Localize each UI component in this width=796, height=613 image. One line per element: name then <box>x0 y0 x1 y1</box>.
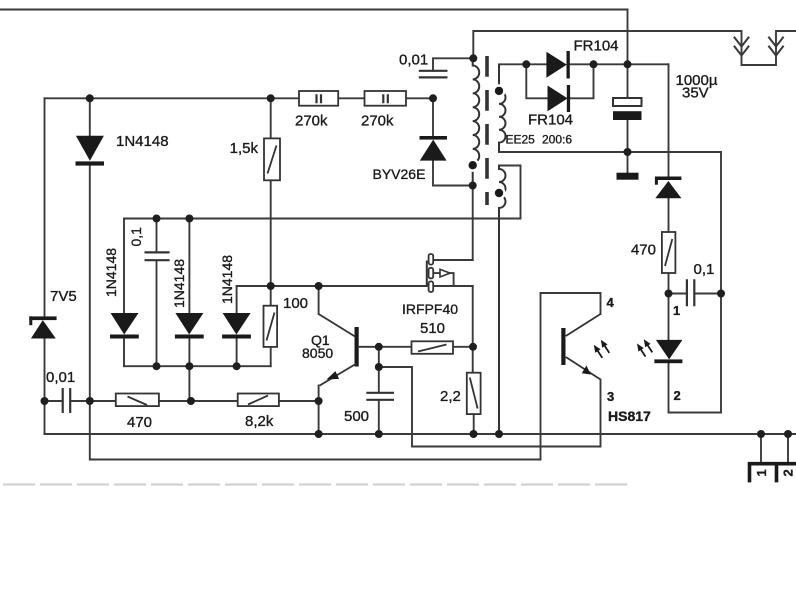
svg-text:1N4148: 1N4148 <box>103 248 119 297</box>
junction dots row y=401 <box>41 397 49 405</box>
wire: rail x=89.8 from row y=401 down to y=459.5 and across to opto rail <box>90 401 541 460</box>
wire: LED node to LED anode <box>668 294 670 340</box>
wire: Q1 emitter column to bottom row <box>318 386 320 435</box>
wire: top horizontal rail <box>0 9 628 11</box>
diode 1N4148 cluster C <box>222 313 251 339</box>
wire: 1000u cap bottom lead to return line <box>627 120 629 152</box>
junction dots cluster bottom bus y=366 <box>153 362 161 370</box>
MOSFET IRFPF40 source segment <box>429 281 434 292</box>
svg-text:0,01: 0,01 <box>46 369 75 386</box>
transistor Q1 base lead <box>359 346 379 348</box>
junction dot primary top <box>469 54 477 62</box>
MOSFET IRFPF40 gate bar <box>426 261 428 287</box>
svg-text:0,1: 0,1 <box>128 227 144 247</box>
capacitor 1000u 35V electrolytic bottom plate <box>613 111 642 120</box>
wire: BYV26E top lead <box>432 98 434 136</box>
wire: MOSFET drain lead <box>433 259 473 261</box>
wire: right column zener top lead <box>668 64 670 176</box>
svg-text:270k: 270k <box>361 113 394 130</box>
wire: MOSFET drain column to primary bottom <box>472 186 474 261</box>
resistor 1,5k body <box>264 138 280 180</box>
wire: aux winding2 bottom lead down to bottom row <box>498 208 500 434</box>
wire: connector pin1 stub <box>760 434 762 462</box>
junction dots row y=98 <box>86 94 94 102</box>
wire: secondary1 bottom lead and return line y=152 <box>499 143 721 152</box>
wire: 510 left lead <box>379 346 412 348</box>
connector arrow left (double chevron) <box>735 38 749 56</box>
transistor Q1 8050 base bar <box>355 327 359 367</box>
wire: cluster column B through bottom bus down to row y=401 <box>188 338 190 401</box>
svg-text:8050: 8050 <box>302 345 333 361</box>
wire: 0,1 cap column top lead <box>156 219 158 252</box>
wire: cluster column C bottom lead <box>236 338 238 366</box>
svg-text:470: 470 <box>631 242 656 259</box>
transistor Q1 collector lead <box>319 314 355 337</box>
capacitor 0,01 (snubber, top) plates <box>419 71 448 78</box>
wire: diode cluster bottom bus y=366 <box>124 365 271 367</box>
MOSFET IRFPF40 body segment <box>429 268 434 279</box>
svg-text:8,2k: 8,2k <box>245 413 274 430</box>
wire: BYV26E bottom lead to primary/drain node <box>433 161 473 186</box>
resistor 100 body <box>264 306 278 347</box>
transformer polarity dot auxiliary <box>492 186 505 199</box>
junction dots base row y=347 <box>375 343 383 351</box>
wire: 0,1 cap left lead <box>669 293 686 295</box>
svg-text:7V5: 7V5 <box>50 288 77 305</box>
transformer polarity dot secondary <box>492 84 505 97</box>
junction dot primary bottom / drain <box>469 182 477 190</box>
capacitor 0,1 (cluster) plates <box>145 252 170 260</box>
wire: 500 cap bottom lead <box>378 400 380 434</box>
diode BYV26E <box>420 136 448 161</box>
wire: auxiliary winding top feed line y=218.5 <box>124 166 521 219</box>
svg-text:1N4148: 1N4148 <box>116 133 169 150</box>
LED light arrow pair <box>640 344 653 357</box>
wire: gate row y=286 from diode3 to MOSFET gate <box>237 285 427 287</box>
wire: left rail x=44.5 from 7V5 down to bottom row <box>44 339 46 435</box>
optocoupler HS817 phototransistor base bar <box>561 328 565 365</box>
wire: MOSFET body tie <box>433 273 453 286</box>
wire: 470 to LED node <box>668 273 670 294</box>
wire: LED cathode down to loop bottom <box>668 363 670 412</box>
wire: 100 resistor bottom lead <box>270 347 272 366</box>
svg-text:2: 2 <box>674 388 681 403</box>
svg-text:1N4148: 1N4148 <box>219 255 235 304</box>
diode FR104 (upper) <box>546 51 569 79</box>
resistor 2,2 body <box>467 373 481 414</box>
svg-text:100: 100 <box>283 295 308 312</box>
svg-text:500: 500 <box>344 408 369 425</box>
MOSFET IRFPF40 body arrow <box>440 269 450 277</box>
svg-text:270k: 270k <box>295 113 328 130</box>
wire: 2,2 bottom lead <box>473 414 475 434</box>
transformer polarity dot primary <box>466 159 479 172</box>
wire: cluster column A bottom lead <box>123 338 125 366</box>
wire: rail x=89.8 row to top 1N4148 <box>89 98 91 136</box>
wire: 510 right lead <box>453 346 473 348</box>
wire: rail x=89.8 from top 1N4148 down to 0,01/470 row <box>89 166 91 401</box>
svg-text:HS817: HS817 <box>608 408 651 424</box>
filter stub plate (black bar) <box>617 173 639 180</box>
diode 1N4148 (top left) <box>76 136 105 166</box>
svg-text:1: 1 <box>754 469 769 476</box>
capacitor 500 plates <box>366 393 394 400</box>
connector arrow right (double chevron) <box>769 38 783 56</box>
wire: 0,1 cap column bottom lead <box>156 261 158 367</box>
capacitor 1000u 35V electrolytic top plate <box>613 98 642 106</box>
wire: opto emitter column pin3 <box>600 380 602 447</box>
transformer T1 core (dashed) <box>485 56 489 205</box>
junction dots gate row y=286 <box>267 282 275 290</box>
junction dots bottom row y=434 <box>315 430 323 438</box>
zener 7V5 <box>29 316 56 338</box>
diode 1N4148 cluster B <box>175 313 204 339</box>
wire: cluster column A top lead <box>123 219 125 314</box>
svg-text:1N4148: 1N4148 <box>171 259 187 308</box>
wire: secondary output rail to right-edge connector arrows <box>473 31 796 65</box>
wire: bottom main row y=434 full width <box>45 433 796 435</box>
resistor 510 body <box>412 341 454 354</box>
svg-text:IRFPF40: IRFPF40 <box>402 301 458 317</box>
svg-text:2: 2 <box>781 469 796 476</box>
wire: FR104 #1 cathode to output node <box>570 63 669 65</box>
svg-text:FR104: FR104 <box>528 112 573 129</box>
wire: opto left rail pin4 loop <box>540 293 542 460</box>
wire: 1,5k top lead <box>270 98 272 138</box>
wire: MOSFET source column to 510/2,2 node <box>472 286 474 373</box>
wire: bottom row y=401 from 0,01 cap to Q1 emitter <box>71 400 318 402</box>
wire: base node to 500 cap top <box>378 347 380 393</box>
connector socket 1 frame <box>750 464 776 483</box>
wire: 100 resistor top lead <box>270 286 272 306</box>
junction dot feedback node y=367 <box>375 363 383 371</box>
wire: 0,1 cap right lead <box>695 293 721 295</box>
svg-text:4: 4 <box>607 295 615 310</box>
wire: cluster column B top lead <box>188 219 190 314</box>
capacitor 0,1 (right) plates <box>687 279 694 306</box>
svg-text:0,1: 0,1 <box>694 261 715 278</box>
opto phototransistor light arrow pair <box>597 344 610 358</box>
wire: stub from return line to filter plate <box>627 152 629 173</box>
optocoupler phototransistor emitter lead with arrow <box>566 357 601 380</box>
svg-text:1,5k: 1,5k <box>230 140 259 157</box>
svg-text:0,01: 0,01 <box>399 52 428 69</box>
wire: feedback line from base node to opto emitter <box>379 367 601 447</box>
wire: secondary1 top lead to FR104 anodes <box>499 63 546 65</box>
wire: zener to 470 resistor <box>668 198 670 232</box>
LED (optocoupler emitter diode) <box>654 340 682 363</box>
zener (right column, above 470) <box>655 177 682 199</box>
connector socket 2 frame <box>777 464 796 483</box>
wire: 1,5k bottom lead down to gate row <box>270 180 272 286</box>
wire: cluster column C lead from gate row <box>236 286 238 313</box>
wire: FR104 pair parallel drop branch <box>526 64 547 98</box>
svg-text:FR104: FR104 <box>574 38 619 55</box>
junction dots aux feed line y=218.5 <box>153 215 161 223</box>
wire: FR104 #2 cathode up to output line <box>570 64 594 98</box>
wire: Q1 collector stub <box>318 286 320 314</box>
svg-text:1: 1 <box>673 303 680 318</box>
capacitor 0,01 (bottom left) plates <box>63 388 70 413</box>
resistor 270k (right) body <box>365 91 407 106</box>
resistor 8,2k body <box>238 394 279 407</box>
svg-text:35V: 35V <box>682 85 709 102</box>
resistor 270k (left) body <box>299 91 338 106</box>
wire: bottom row y=401 left of 0,01 cap <box>45 400 62 402</box>
svg-text:510: 510 <box>420 320 445 337</box>
resistor 470 (bottom left) body <box>116 394 159 407</box>
svg-text:3: 3 <box>607 389 614 404</box>
optocoupler phototransistor collector lead <box>566 314 601 336</box>
wire: vertical drop from top rail to output node and 1000u cap <box>627 10 629 99</box>
resistor 470 (right column) body <box>662 232 676 273</box>
diode FR104 (lower) <box>548 85 571 112</box>
transformer T1 auxiliary winding <box>499 166 506 435</box>
transformer T1 primary winding <box>473 58 480 185</box>
wire: 0,01 snubber cap top lead to primary top node <box>433 58 473 71</box>
transformer T1 secondary winding <box>499 64 506 152</box>
junction dot return line y=152 <box>624 148 632 156</box>
wire: main left row y=98 from left rail to BYV26E node <box>45 97 434 99</box>
wire: opto pin4 top lead <box>541 293 601 314</box>
wire: right loop from return line down around LED <box>669 152 722 413</box>
svg-text:2,2: 2,2 <box>440 388 461 405</box>
junction dots secondary output line y=64 <box>522 60 530 68</box>
faint scan streak <box>4 483 632 485</box>
junction dots LED row y=293.5 <box>665 290 673 298</box>
MOSFET IRFPF40 drain segment <box>429 254 434 265</box>
wire: left rail x=44.5 from row down to 7V5 zener <box>44 98 46 316</box>
svg-text:470: 470 <box>127 414 152 431</box>
wire: MOSFET source lead <box>433 285 473 287</box>
wire: connector pin2 stub <box>787 434 789 462</box>
diode 1N4148 cluster A <box>110 313 139 339</box>
svg-text:BYV26E: BYV26E <box>373 166 426 182</box>
transistor Q1 emitter lead with arrow <box>320 364 357 386</box>
